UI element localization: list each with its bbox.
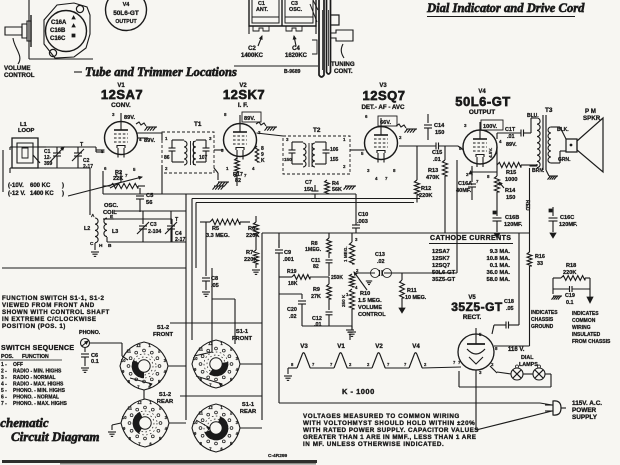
- legend common wiring symbol: [572, 297, 611, 345]
- svg-text:OSC.: OSC.: [289, 7, 303, 13]
- capacitor C18 .05: [492, 299, 519, 334]
- heater string labels V3 V1 V2 V4: [300, 343, 420, 350]
- svg-text:.02: .02: [289, 314, 297, 320]
- svg-text:C19: C19: [565, 293, 575, 299]
- voltage 4.5V vertical at V4: [488, 148, 493, 158]
- svg-text:VIEWED FROM FRONT AND: VIEWED FROM FRONT AND: [2, 302, 95, 309]
- svg-text:C16A: C16A: [458, 181, 472, 187]
- svg-text:WIRING: WIRING: [572, 325, 591, 331]
- output transformer T3: [530, 107, 561, 170]
- switch wafer S1-2 REAR: [121, 392, 174, 447]
- svg-text:COMMON: COMMON: [572, 318, 596, 324]
- svg-text:5 -: 5 -: [1, 388, 7, 394]
- resistor R2 22K: [103, 170, 145, 189]
- svg-text:WITH RATED POWER SUPPLY. CAPA: WITH RATED POWER SUPPLY. CAPACITOR VALUE…: [303, 427, 479, 434]
- resistor R15 1000: [497, 162, 537, 183]
- capacitor C16C 120MF electrolytic: [549, 207, 578, 238]
- svg-text:C2: C2: [248, 46, 256, 52]
- svg-text:FUNCTION SWITCH S1-1, S1-2: FUNCTION SWITCH S1-1, S1-2: [2, 295, 104, 302]
- svg-text:11: 11: [127, 348, 132, 353]
- svg-text:6 -: 6 -: [1, 395, 7, 401]
- label R10 1.5 MEG VOLUME CONTROL: [354, 272, 386, 318]
- svg-text:50L6-GT: 50L6-GT: [113, 10, 139, 17]
- capacitor C19 0.1: [553, 278, 590, 306]
- svg-text:INSULATED: INSULATED: [572, 332, 601, 338]
- oscillator coil L2 L3: [84, 203, 119, 250]
- svg-text:INDICATES: INDICATES: [531, 310, 558, 316]
- wire power bus to plug: [279, 259, 552, 430]
- svg-text:1MEG.: 1MEG.: [305, 247, 322, 253]
- wire volume cluster: [279, 160, 457, 336]
- svg-text:40MF.: 40MF.: [456, 188, 472, 194]
- svg-text:I. F.: I. F.: [238, 102, 249, 109]
- cathode currents table: [429, 235, 513, 283]
- svg-text:RADIO - MIN. HIGHS: RADIO - MIN. HIGHS: [13, 369, 62, 375]
- svg-text:C10: C10: [358, 212, 368, 218]
- svg-text:V4: V4: [412, 343, 420, 350]
- svg-text:12: 12: [208, 341, 213, 346]
- function switch note: [2, 295, 110, 330]
- wire V4 cathode bus: [472, 147, 497, 176]
- svg-text:1400KC: 1400KC: [241, 53, 264, 59]
- svg-text:2 -: 2 -: [1, 369, 7, 375]
- svg-text:12SK7: 12SK7: [432, 256, 450, 262]
- resistor R13 470K: [426, 146, 448, 233]
- capacitor C8 .05: [202, 268, 219, 296]
- svg-text:VOLUME: VOLUME: [4, 65, 30, 72]
- svg-text:600 KC: 600 KC: [30, 183, 51, 189]
- svg-text:10 MEG.: 10 MEG.: [405, 295, 427, 301]
- capacitor C17 .01: [497, 127, 531, 148]
- svg-text:Tube and Trimmer Locations: Tube and Trimmer Locations: [85, 65, 237, 79]
- part number B-9689: [284, 69, 301, 75]
- svg-text:470K: 470K: [426, 175, 439, 181]
- svg-text:89V.: 89V.: [244, 116, 255, 122]
- tube V1 12SA7: [96, 112, 142, 178]
- svg-text:T3: T3: [545, 107, 553, 114]
- svg-text:C16A: C16A: [51, 20, 67, 26]
- svg-text:R16: R16: [535, 254, 545, 260]
- svg-text:SUPPLY: SUPPLY: [572, 414, 598, 421]
- svg-text:82: 82: [313, 264, 319, 270]
- label VOLUME CONTROL: [4, 38, 35, 79]
- label 89K stacked at V2: [255, 146, 265, 164]
- IF transformer T1: [162, 121, 214, 173]
- label V5 35Z5-GT RECT: [451, 295, 503, 321]
- electrolytic can C16 with mounting tabs: [44, 3, 90, 58]
- svg-text:R19: R19: [287, 269, 297, 275]
- svg-text:(-10V.: (-10V.: [8, 183, 24, 189]
- wire color BLU: [527, 113, 539, 119]
- svg-text:C9: C9: [284, 250, 291, 256]
- voltages measured note: [303, 413, 479, 448]
- svg-text:12: 12: [136, 343, 141, 348]
- svg-text:DIAL: DIAL: [521, 355, 534, 361]
- svg-text:RADIO - MAX. HIGHS: RADIO - MAX. HIGHS: [13, 382, 64, 388]
- svg-text:35Z5-GT: 35Z5-GT: [451, 300, 503, 314]
- wire oscillator loop: [107, 171, 186, 242]
- caption Schematic Circuit Diagram: [0, 415, 100, 444]
- trimmer capacitor C4 2-17: [165, 217, 185, 243]
- voltage 116V at V5: [494, 346, 530, 353]
- switch wafer S1-2 FRONT: [120, 325, 173, 390]
- svg-text:89V.: 89V.: [124, 115, 135, 121]
- svg-text:220K: 220K: [419, 193, 432, 199]
- svg-text:C13: C13: [375, 252, 385, 258]
- svg-text:50L6-GT: 50L6-GT: [432, 270, 456, 276]
- svg-text:R10: R10: [360, 291, 370, 297]
- power plug: [545, 401, 566, 415]
- IF transformer T2: [283, 127, 350, 174]
- svg-text:250K: 250K: [331, 275, 343, 281]
- heater elements chain: [288, 353, 461, 368]
- capacitor C13 .02: [356, 252, 402, 285]
- svg-text:GREATER THAN 1 ARE IN MMF., LE: GREATER THAN 1 ARE IN MMF., LESS THAN 1 …: [303, 434, 476, 441]
- svg-text:220K: 220K: [563, 270, 576, 276]
- svg-text:GROUND: GROUND: [531, 324, 554, 330]
- svg-text:.01: .01: [314, 322, 322, 328]
- svg-text:B: B: [108, 243, 112, 249]
- label K-1000: [342, 387, 375, 396]
- svg-text:S1-2: S1-2: [157, 325, 169, 331]
- svg-text:RECT.: RECT.: [463, 314, 482, 321]
- svg-text:): ): [62, 183, 64, 189]
- capacitor C16B 120MF electrolytic: [493, 211, 523, 238]
- svg-text:V4: V4: [123, 2, 131, 8]
- svg-text:IN MF. UNLESS OTHERWISE INDICA: IN MF. UNLESS OTHERWISE INDICATED.: [303, 441, 444, 448]
- svg-text:10: 10: [193, 356, 198, 361]
- resistor R17 82: [233, 158, 243, 186]
- capacitor C9 .001: [275, 240, 294, 263]
- svg-text:LAMPS: LAMPS: [519, 362, 538, 368]
- svg-text:150: 150: [304, 187, 313, 193]
- resistor R9 27K: [311, 277, 331, 310]
- svg-text:(-12 V.: (-12 V.: [8, 191, 26, 197]
- label V1 12SA7 CONV: [101, 83, 143, 109]
- svg-text:R6: R6: [248, 226, 255, 232]
- resistor R18 220K: [553, 263, 590, 280]
- svg-text:0.1: 0.1: [566, 300, 574, 306]
- svg-text:INDICATES: INDICATES: [572, 311, 599, 317]
- svg-text:18K: 18K: [288, 281, 298, 287]
- trimmer C2 label: [241, 36, 264, 59]
- potentiometer 250K upper section: [331, 274, 358, 290]
- svg-text:1 -: 1 -: [1, 362, 7, 368]
- resistor R5 3.3 MEG: [200, 219, 250, 239]
- switch sequence table: [0, 345, 74, 407]
- resistor R12 220K: [414, 146, 432, 203]
- svg-text:11: 11: [199, 346, 204, 351]
- voltage 89V at V1 grid cap: [124, 115, 135, 121]
- svg-text:PHONO. - NORMAL: PHONO. - NORMAL: [13, 395, 59, 401]
- svg-text:C: C: [90, 241, 94, 247]
- svg-text:1 MEG.: 1 MEG.: [343, 246, 348, 262]
- svg-text:FUNCTION: FUNCTION: [22, 354, 49, 360]
- svg-text:PHONO.: PHONO.: [79, 330, 101, 336]
- svg-text:66V.: 66V.: [380, 120, 391, 126]
- svg-text:56: 56: [146, 200, 153, 206]
- svg-text:115V. A.C.: 115V. A.C.: [572, 400, 602, 407]
- svg-text:R18: R18: [566, 263, 576, 269]
- resistor R14 150: [494, 165, 516, 212]
- svg-text:116 V.: 116 V.: [508, 347, 525, 353]
- trimmer C4 label: [285, 36, 308, 59]
- svg-text:PHONO. - MAX. HIGHS: PHONO. - MAX. HIGHS: [13, 401, 68, 407]
- scan artifact dark strip at bottom: [2, 460, 317, 463]
- ground at S1-2 REAR: [108, 432, 116, 436]
- svg-text:10.8 MA.: 10.8 MA.: [486, 256, 510, 262]
- svg-text:): ): [62, 191, 64, 197]
- svg-text:VOLTAGES MEASURED TO COMMON WI: VOLTAGES MEASURED TO COMMON WIRING: [303, 413, 460, 420]
- svg-text:35Z5-GT: 35Z5-GT: [432, 277, 456, 283]
- svg-text:S1-1: S1-1: [236, 329, 249, 335]
- note -10V -12V tuning voltages: [8, 176, 142, 197]
- svg-text:C3: C3: [150, 222, 157, 228]
- svg-text:82: 82: [235, 178, 241, 184]
- capacitor C6 0.1: [81, 348, 99, 373]
- svg-text:C15: C15: [432, 150, 442, 156]
- svg-text:Circuit Diagram: Circuit Diagram: [11, 429, 100, 444]
- wire antenna bus: [3, 147, 105, 215]
- variable capacitor C1 12-399: [44, 147, 64, 168]
- svg-text:150: 150: [284, 157, 292, 162]
- svg-text:C-4R299: C-4R299: [268, 453, 288, 459]
- voltage 100V boxed at V4: [481, 120, 503, 130]
- svg-text:100V.: 100V.: [483, 124, 498, 130]
- svg-text:C16C: C16C: [50, 36, 66, 42]
- svg-text:S1-2: S1-2: [159, 392, 171, 398]
- svg-text:LOOP: LOOP: [18, 128, 35, 134]
- svg-text:0.1: 0.1: [91, 359, 99, 365]
- svg-text:33: 33: [537, 261, 543, 267]
- svg-text:150: 150: [506, 195, 515, 201]
- svg-text:58.0 MA.: 58.0 MA.: [486, 277, 510, 283]
- svg-text:T1: T1: [194, 121, 202, 128]
- chassis ground at V3 top: [396, 124, 417, 133]
- capacitor C11 82: [311, 258, 333, 276]
- label TUNING CONT.: [331, 44, 355, 75]
- voltage 66V boxed at V3: [378, 116, 397, 126]
- svg-text:.05: .05: [211, 283, 219, 289]
- tube V4 location badge: [106, 0, 147, 31]
- svg-text:7 -: 7 -: [1, 401, 7, 407]
- svg-text:.001: .001: [283, 257, 294, 263]
- svg-text:K - 1000: K - 1000: [342, 387, 375, 396]
- svg-text:12SQ7: 12SQ7: [363, 88, 406, 103]
- svg-text:R11: R11: [407, 288, 417, 294]
- svg-text:CONT.: CONT.: [334, 68, 353, 75]
- dial drum and tuning shaft: [310, 0, 353, 77]
- voltage 89V at V1 plate pin 4: [138, 138, 156, 144]
- capacitor C20 .02: [287, 294, 306, 326]
- svg-text:12: 12: [208, 405, 213, 410]
- svg-text:L3: L3: [112, 229, 118, 235]
- svg-text:ANT.: ANT.: [256, 7, 268, 13]
- ground at oscillator coil: [91, 252, 99, 256]
- svg-text:11: 11: [199, 410, 204, 415]
- svg-text:DET.- AF - AVC: DET.- AF - AVC: [361, 104, 405, 111]
- tube V3 12SQ7: [361, 114, 402, 181]
- svg-text:OSC.: OSC.: [104, 203, 119, 209]
- svg-text:CONV.: CONV.: [111, 102, 131, 109]
- caption Tube and Trimmer Locations: [74, 65, 237, 79]
- resistor R11 10 MEG: [399, 273, 427, 313]
- svg-text:1000: 1000: [505, 177, 517, 183]
- svg-text:.01: .01: [433, 157, 441, 163]
- chassis ground near R4: [344, 186, 357, 190]
- resistor R7 220K: [244, 245, 260, 274]
- capacitor C15 .01: [399, 143, 464, 164]
- svg-text:150: 150: [435, 130, 444, 136]
- svg-text:A: A: [91, 213, 95, 219]
- part number C-4R299: [268, 453, 288, 459]
- svg-text:C16B: C16B: [50, 28, 66, 34]
- tube V5 35Z5-GT: [458, 328, 498, 375]
- label V2 12SK7 IF: [223, 83, 265, 109]
- svg-text:120MF.: 120MF.: [504, 222, 523, 228]
- svg-text:BRN.: BRN.: [532, 168, 545, 174]
- svg-text:C4: C4: [292, 46, 300, 52]
- svg-text:V1: V1: [337, 343, 345, 350]
- svg-text:107: 107: [199, 155, 208, 161]
- trimmer capacitor C2 2-17: [72, 142, 93, 170]
- resistor R19 18K: [279, 269, 329, 287]
- wire color RED vertical: [524, 168, 530, 233]
- svg-text:C14: C14: [434, 123, 445, 129]
- resistor R6 220K: [246, 216, 259, 245]
- wire V1 plate to T1: [138, 133, 224, 194]
- tuning gang condenser body: [249, 0, 316, 34]
- svg-text:PHONO. - MIN. HIGHS: PHONO. - MIN. HIGHS: [13, 388, 66, 394]
- svg-text:H: H: [99, 243, 103, 249]
- svg-text:WITH VOLTOHMYST SHOULD HOLD WI: WITH VOLTOHMYST SHOULD HOLD WITHIN ±20%: [303, 420, 475, 427]
- svg-text:FRONT: FRONT: [153, 332, 173, 338]
- svg-text:11: 11: [128, 405, 133, 410]
- svg-text:REAR: REAR: [157, 399, 174, 405]
- svg-text:CHASSIS: CHASSIS: [531, 317, 554, 323]
- trimmer capacitor C3 2-104: [137, 219, 161, 240]
- tube V2 12SK7: [221, 112, 261, 178]
- svg-text:12: 12: [137, 400, 142, 405]
- svg-text:C8: C8: [211, 276, 218, 282]
- svg-text:4 -: 4 -: [1, 382, 7, 388]
- volume control shaft: [5, 15, 31, 47]
- dial lamps: [459, 355, 551, 387]
- svg-text:120MF.: 120MF.: [559, 222, 578, 228]
- svg-text:CONTROL: CONTROL: [4, 72, 35, 79]
- loop antenna L1: [12, 122, 46, 168]
- svg-text:36.0 MA.: 36.0 MA.: [486, 270, 510, 276]
- svg-text:SWITCH SEQUENCE: SWITCH SEQUENCE: [1, 345, 74, 352]
- svg-text:VOLUME: VOLUME: [358, 305, 382, 311]
- svg-text:C20: C20: [287, 307, 297, 313]
- svg-text:P M: P M: [585, 108, 596, 115]
- resistor 1 MEG section of pot: [343, 233, 359, 273]
- svg-text:R9: R9: [313, 287, 320, 293]
- svg-text:4.5V.: 4.5V.: [488, 148, 493, 158]
- svg-text:22K: 22K: [113, 176, 123, 182]
- svg-text:27K: 27K: [311, 294, 321, 300]
- svg-text:C1T: C1T: [505, 127, 516, 133]
- caption Dial Indicator and Drive Cord: [426, 1, 585, 17]
- svg-text:IN EXTREME C/CLOCKWISE: IN EXTREME C/CLOCKWISE: [2, 316, 97, 323]
- chassis ground at V1 top: [136, 122, 157, 131]
- capacitor C7 150: [304, 180, 319, 199]
- svg-text:86: 86: [164, 155, 170, 161]
- svg-text:155: 155: [330, 157, 339, 163]
- svg-text:R14: R14: [505, 188, 516, 194]
- svg-text:K: K: [261, 158, 265, 164]
- svg-text:56K: 56K: [332, 187, 342, 193]
- svg-text:399: 399: [44, 161, 53, 167]
- svg-text:R7: R7: [246, 250, 253, 256]
- svg-text:12SK7: 12SK7: [223, 87, 265, 102]
- resistor R8 1 MEG: [305, 233, 331, 258]
- svg-text:OUTPUT: OUTPUT: [115, 19, 137, 25]
- svg-text:C16B: C16B: [505, 215, 519, 221]
- svg-text:GRN.: GRN.: [558, 157, 571, 163]
- svg-text:3 -: 3 -: [1, 375, 7, 381]
- wire V2 plate to T2: [257, 133, 365, 150]
- svg-text:2-104: 2-104: [148, 229, 161, 235]
- svg-text:REAR: REAR: [240, 409, 257, 415]
- resistor R4 56K: [325, 180, 342, 194]
- svg-text:CATHODE CURRENTS: CATHODE CURRENTS: [430, 235, 511, 242]
- capacitor C16A 40MF electrolytic: [456, 166, 476, 200]
- svg-text:L2: L2: [84, 226, 90, 232]
- svg-text:B-9689: B-9689: [284, 69, 301, 75]
- svg-text:FROM CHASSIS: FROM CHASSIS: [572, 339, 611, 345]
- switch wafer S1-1 REAR: [192, 402, 257, 452]
- svg-text:Dial Indicator and Drive Cord: Dial Indicator and Drive Cord: [426, 1, 585, 15]
- svg-text:1400 KC: 1400 KC: [30, 191, 54, 197]
- svg-text:T2: T2: [313, 127, 321, 134]
- capacitor C5 56: [136, 188, 154, 212]
- wire color BRN: [532, 168, 545, 174]
- capacitor C12 .01: [312, 312, 333, 328]
- svg-text:V3: V3: [300, 343, 308, 350]
- svg-text:RADIO - NORMAL: RADIO - NORMAL: [13, 375, 56, 381]
- svg-text:R13: R13: [428, 168, 438, 174]
- svg-text:220K: 220K: [246, 233, 259, 239]
- wire color BLK: [557, 127, 569, 133]
- legend chassis ground symbol: [531, 296, 562, 330]
- svg-text:POWER: POWER: [572, 407, 597, 414]
- svg-text:POSITION (POS. 1): POSITION (POS. 1): [2, 323, 66, 330]
- svg-text:.02: .02: [377, 259, 385, 265]
- svg-text:1620KC: 1620KC: [285, 53, 308, 59]
- chassis ground at T3: [546, 170, 558, 180]
- ground above heater string: [346, 330, 354, 340]
- tube V4 50L6-GT: [459, 122, 502, 184]
- svg-text:106: 106: [330, 147, 339, 153]
- svg-text:C7: C7: [305, 180, 312, 186]
- svg-text:SHOWN WITH CONTROL SHAFT: SHOWN WITH CONTROL SHAFT: [2, 309, 110, 316]
- svg-text:CONTROL: CONTROL: [358, 312, 386, 318]
- svg-text:89V.: 89V.: [144, 138, 155, 144]
- chassis ground below T1: [214, 168, 229, 186]
- svg-text:0.1 MA.: 0.1 MA.: [490, 263, 511, 269]
- svg-text:C16C: C16C: [560, 215, 574, 221]
- svg-text:12SA7: 12SA7: [101, 87, 143, 102]
- svg-text:R5: R5: [212, 226, 219, 232]
- capacitor C10 .003: [352, 194, 368, 233]
- svg-text:R12: R12: [421, 186, 431, 192]
- svg-text:2-17: 2-17: [83, 164, 93, 170]
- wire color GRN: [558, 157, 571, 163]
- label V4 50L6-GT OUTPUT: [455, 89, 511, 116]
- resistor R16 33: [527, 233, 545, 346]
